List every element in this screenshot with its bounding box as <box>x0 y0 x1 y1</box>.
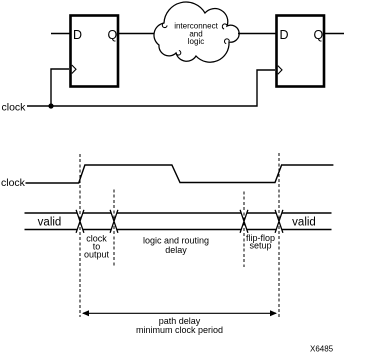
svg-text:clock: clock <box>2 102 27 114</box>
dashed marker line at clock-to-output boundary <box>113 190 115 268</box>
svg-text:valid: valid <box>38 217 62 229</box>
cloud cusp curl top-left <box>162 23 167 28</box>
svg-text:Q: Q <box>108 28 118 42</box>
dimension arrow path delay <box>83 312 276 314</box>
svg-text:setup: setup <box>249 241 271 251</box>
bus transition X at clock edge <box>76 210 84 233</box>
wire D input stub U1 <box>51 33 70 35</box>
dashed marker line at flip-flop setup start <box>243 192 245 268</box>
svg-text:minimum clock period: minimum clock period <box>136 325 223 335</box>
valid bus bottom rail <box>25 229 332 231</box>
clock waveform <box>26 165 334 183</box>
bus transition X at setup end <box>275 210 283 233</box>
svg-text:logic: logic <box>188 37 204 46</box>
wire U1 Q to cloud <box>119 33 155 35</box>
bus transition X at clock-to-output end <box>110 210 118 233</box>
svg-text:Q: Q <box>314 28 324 42</box>
flip-flop U2 clock triangle <box>278 66 282 75</box>
dashed marker line at second clock edge <box>278 153 280 317</box>
svg-text:valid: valid <box>292 217 316 229</box>
svg-text:X6485: X6485 <box>310 344 334 353</box>
wire cloud to U2 D input <box>238 33 276 35</box>
svg-text:clock: clock <box>1 177 26 189</box>
cloud cusp curl bottom-left <box>176 51 181 56</box>
cloud cusp curl top-right <box>222 24 227 29</box>
wire clock main horizontal <box>27 70 275 106</box>
valid bus top rail <box>25 212 332 214</box>
flip-flop U1 clock triangle <box>72 65 76 74</box>
wire U2 Q output stub <box>325 33 344 35</box>
junction clock node <box>48 103 53 108</box>
svg-text:D: D <box>280 28 289 42</box>
cloud cusp curl right-bottom <box>225 39 230 44</box>
cloud interconnect and logic <box>154 2 239 62</box>
flip-flop U1 body <box>71 16 119 87</box>
svg-text:output: output <box>84 249 110 259</box>
svg-text:delay: delay <box>165 245 187 255</box>
wire clock branch to U1 <box>51 69 69 106</box>
svg-text:D: D <box>73 28 82 42</box>
dashed marker line at first clock edge <box>79 154 81 317</box>
bus transition X at routing delay end <box>240 210 248 233</box>
flip-flop U2 body <box>277 16 325 87</box>
